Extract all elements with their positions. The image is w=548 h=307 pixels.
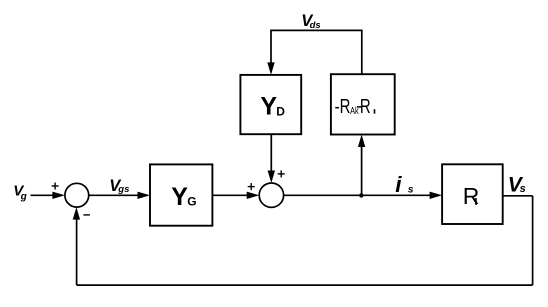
wire: feedback right vertical (532, 196, 534, 285)
svg-text:ds: ds (310, 20, 321, 31)
block RL (442, 164, 503, 224)
svg-text:Y: Y (171, 183, 188, 211)
wire: node up into block NR (358, 135, 365, 196)
svg-text:G: G (187, 195, 196, 209)
minus sign at S1 feedback input (83, 214, 90, 216)
svg-text:R: R (360, 96, 371, 118)
wire: S2 to block RL with junction node (284, 192, 443, 199)
label v_gs (109, 177, 129, 195)
svg-text:g: g (20, 191, 27, 202)
label V_ds (301, 12, 320, 31)
wire: YD output down into S2 (268, 134, 275, 183)
wire: feedback left vertical up into S1 (73, 207, 80, 285)
plus sign at S2 left input (248, 183, 255, 190)
label i_s (395, 172, 414, 197)
junction node on i_s line (359, 193, 363, 197)
svg-text:i: i (395, 172, 402, 197)
plus sign at S2 top input (278, 170, 285, 177)
label V_s (508, 173, 526, 196)
block NR (-R_Ak R_l) (331, 74, 395, 134)
svg-text:gs: gs (117, 184, 129, 195)
summing junction S1 (65, 183, 89, 207)
svg-text:-R: -R (335, 96, 351, 118)
wire: feedback bottom horizontal (77, 284, 533, 286)
svg-text:s: s (520, 183, 526, 195)
label v_g (13, 183, 27, 203)
summing junction S2 (259, 183, 283, 207)
plus sign at S1 input (52, 183, 59, 190)
svg-text:Y: Y (260, 93, 277, 121)
svg-text:s: s (408, 184, 414, 195)
block YD (240, 75, 301, 134)
svg-text:R: R (463, 183, 480, 209)
wire: S1 to block YG (89, 192, 150, 199)
svg-text:D: D (276, 105, 285, 119)
wire: RL output to feedback corner (503, 195, 533, 197)
block YG (150, 164, 212, 225)
wire: NR output up, across, down into YD (267, 30, 362, 75)
wire: input v_g to summer S1 (31, 192, 65, 199)
wire: YG to summer S2 (212, 192, 259, 199)
